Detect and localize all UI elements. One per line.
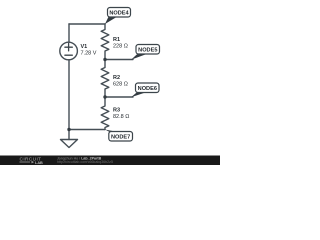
- svg-text:R1: R1: [113, 37, 120, 43]
- svg-text:http:∕∕circuitlab.com∕c66kakq3: http:∕∕circuitlab.com∕c66kakq36b2z5: [57, 160, 113, 164]
- svg-text:V1: V1: [81, 44, 88, 50]
- svg-text:228 Ω: 228 Ω: [113, 43, 128, 49]
- svg-text:NODE6: NODE6: [138, 86, 157, 92]
- svg-text:LAB: LAB: [35, 161, 43, 165]
- svg-text:NODE7: NODE7: [111, 135, 130, 141]
- svg-text:628 Ω: 628 Ω: [113, 81, 128, 87]
- svg-text:7.28 V: 7.28 V: [81, 51, 97, 57]
- svg-text:R3: R3: [113, 108, 120, 114]
- svg-text:R2: R2: [113, 75, 120, 81]
- svg-text:82.8 Ω: 82.8 Ω: [113, 114, 129, 120]
- svg-text:NODE5: NODE5: [138, 48, 157, 54]
- svg-text:NODE4: NODE4: [109, 11, 129, 17]
